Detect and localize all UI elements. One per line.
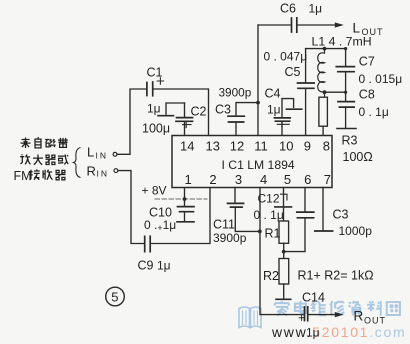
capacitor C11 — [228, 203, 244, 207]
source label line1: ci — [45, 139, 56, 147]
source label line1: dai — [58, 138, 68, 148]
svg-text:C9 1μ: C9 1μ — [138, 259, 171, 273]
node C11/pin4 rail — [258, 230, 262, 234]
svg-text:C14: C14 — [302, 291, 325, 305]
capacitor C14 — [305, 307, 308, 321]
source label line1: zi — [35, 137, 41, 148]
C14 plus mark — [299, 316, 304, 321]
node pin1/C10 junction — [183, 197, 187, 201]
C1 plus sign — [157, 78, 163, 84]
svg-text:C4: C4 — [265, 87, 281, 101]
capacitor C9 — [145, 236, 151, 252]
wire L1-C7 mid rail — [325, 91, 346, 93]
svg-text:C8: C8 — [359, 88, 375, 102]
ground bar C3 1000p — [315, 230, 333, 232]
wire R_IN down rail — [118, 171, 144, 244]
inductor L1 — [318, 49, 325, 98]
wire 3900p cap to junction — [236, 103, 258, 116]
ground bar C10 — [177, 221, 194, 223]
svg-text:6: 6 — [304, 172, 311, 187]
capacitor C4 ground lead — [282, 99, 294, 108]
wire C5 to pin9 — [305, 88, 307, 135]
svg-text:100Ω: 100Ω — [343, 150, 373, 164]
svg-text:0 . 047μ: 0 . 047μ — [264, 50, 308, 64]
resistor R1 — [279, 221, 289, 243]
svg-text:10: 10 — [279, 139, 293, 154]
capacitor C2 ground lead — [166, 103, 185, 114]
svg-text:C1: C1 — [147, 66, 163, 80]
capacitor C8 — [345, 92, 347, 101]
source label line2: huo — [58, 155, 68, 165]
svg-text:5: 5 — [111, 290, 118, 305]
arrowhead L_OUT — [335, 22, 344, 27]
wire top filter rail — [306, 48, 346, 50]
source label line3: shou — [43, 170, 52, 180]
svg-text:1: 1 — [185, 172, 192, 187]
svg-text:3: 3 — [235, 172, 242, 187]
C4 plus mark — [277, 121, 289, 127]
wire C14 to R_OUT arrow — [309, 314, 335, 316]
svg-text:C3: C3 — [215, 103, 231, 117]
ground bar C2 — [158, 115, 174, 117]
wire C12 to R1/R2 junction — [284, 218, 305, 252]
ground bar C8 — [337, 128, 356, 130]
svg-text:8: 8 — [323, 139, 330, 154]
svg-text:C3: C3 — [333, 208, 349, 222]
source label line3: jie — [29, 169, 40, 179]
svg-text:3900p: 3900p — [213, 231, 247, 245]
svg-text:I C1 LM 1894: I C1 LM 1894 — [222, 158, 295, 172]
svg-text:1μ: 1μ — [309, 2, 323, 16]
pin5 lead to R1 — [283, 188, 285, 222]
svg-text:C5: C5 — [285, 65, 301, 79]
svg-text:13: 13 — [206, 139, 220, 154]
svg-text:12: 12 — [230, 139, 244, 154]
svg-text:4: 4 — [260, 172, 267, 187]
capacitor C2 — [184, 103, 186, 117]
svg-text:FM: FM — [14, 169, 32, 183]
svg-text:R3: R3 — [342, 134, 358, 148]
wire C6 to L_OUT arrow — [298, 24, 335, 26]
svg-text:3900p: 3900p — [219, 86, 252, 100]
svg-text:L: L — [353, 21, 361, 36]
capacitor C4 — [281, 99, 283, 118]
brace for input source — [74, 148, 81, 178]
wire C1 to pin13 — [154, 89, 209, 136]
resistor R2 — [279, 259, 289, 285]
svg-text:R2: R2 — [263, 269, 279, 283]
node R1/R2 junction — [282, 250, 286, 254]
node C7/C8 mid — [344, 91, 347, 94]
C12 bracket mark — [281, 194, 288, 200]
pin3 stub — [234, 188, 236, 204]
svg-text:2: 2 — [209, 172, 216, 187]
svg-text:11: 11 — [254, 139, 267, 154]
svg-text:1000p: 1000p — [339, 224, 373, 238]
wire R1 to junction — [283, 243, 285, 258]
wire R3 to pin8 — [322, 126, 324, 135]
arrowhead R_OUT — [335, 312, 344, 317]
source label line2: da — [33, 155, 43, 165]
wire C4 to pin10 — [281, 121, 283, 135]
svg-text:R1+ R2= 1kΩ: R1+ R2= 1kΩ — [298, 269, 374, 283]
svg-text:IN: IN — [96, 151, 109, 161]
svg-text:R1: R1 — [265, 227, 281, 241]
svg-text:www.520101.com: www.520101.com — [271, 324, 406, 340]
svg-text:C12: C12 — [258, 192, 280, 206]
wire R2 to ground — [283, 284, 285, 299]
svg-text:C7: C7 — [359, 55, 375, 69]
terminal circle L_IN — [113, 152, 117, 156]
svg-text:L1 4 . 7mH: L1 4 . 7mH — [312, 35, 372, 49]
svg-text:14: 14 — [180, 139, 194, 154]
svg-text:7: 7 — [324, 172, 331, 187]
svg-text:OUT: OUT — [364, 316, 386, 326]
svg-text:C6: C6 — [280, 2, 296, 16]
svg-text:100μ: 100μ — [142, 122, 170, 136]
source label line3: qi2 — [56, 170, 66, 179]
svg-text:9: 9 — [304, 139, 311, 154]
svg-text:IN: IN — [97, 169, 110, 179]
C2 plus mark — [183, 121, 191, 127]
circled figure number 5 — [106, 287, 125, 306]
watermark text line1 — [275, 301, 400, 316]
node junction pin11 rail — [256, 101, 260, 105]
wire C6 input — [258, 24, 290, 26]
node L1 bottom — [323, 90, 327, 94]
source label line1: lai — [21, 138, 31, 149]
capacitor C3 1000p lead — [322, 188, 324, 231]
terminal circle R_IN — [114, 169, 118, 173]
capacitor C1 — [147, 82, 153, 96]
svg-text:L: L — [87, 145, 94, 160]
svg-text:1μ: 1μ — [306, 326, 320, 340]
source label line2: qi — [46, 155, 56, 164]
IC U1 box — [172, 136, 332, 188]
svg-text:0 . 1μ: 0 . 1μ — [359, 105, 389, 119]
watermark book icon — [239, 307, 261, 328]
svg-text:C11: C11 — [213, 218, 235, 232]
wire pin4 down to output — [260, 188, 303, 315]
svg-text:0 . 1μ: 0 . 1μ — [254, 208, 284, 222]
capacitor C6 — [292, 18, 297, 32]
wire 3900p to pin12 — [235, 122, 237, 136]
capacitor C5 — [305, 49, 307, 83]
svg-text:R: R — [354, 309, 364, 324]
svg-text:+ 8V: + 8V — [142, 184, 167, 198]
resistor R3 — [319, 97, 328, 126]
wire C6 down to pin11 — [257, 25, 259, 136]
wire L_IN to C1 rail — [117, 89, 146, 154]
ground bar R2 — [276, 298, 291, 300]
node C7 top — [344, 47, 347, 50]
pin1 stub — [184, 188, 186, 200]
wire C2 to pin14 — [184, 121, 186, 135]
capacitor C7 — [345, 49, 347, 67]
C12 plate bar — [275, 206, 292, 208]
svg-text:C2: C2 — [191, 105, 207, 119]
node L1 top — [323, 47, 327, 51]
+8V supply dashed wire — [155, 198, 207, 200]
capacitor C10 — [184, 199, 186, 206]
svg-text:1μ: 1μ — [147, 102, 161, 116]
svg-text:0 . 015μ: 0 . 015μ — [359, 72, 403, 86]
ground bar C4 — [286, 108, 301, 110]
svg-text:R: R — [87, 164, 96, 179]
wire C11 to pin4 rail — [235, 207, 259, 231]
svg-text:1μ: 1μ — [267, 103, 281, 117]
source label line2: fang — [20, 154, 30, 164]
capacitor C3 3900p — [228, 116, 244, 122]
svg-text:5: 5 — [284, 172, 291, 187]
wire C9 to pin2 — [151, 188, 210, 244]
capacitor C12 — [304, 188, 306, 212]
